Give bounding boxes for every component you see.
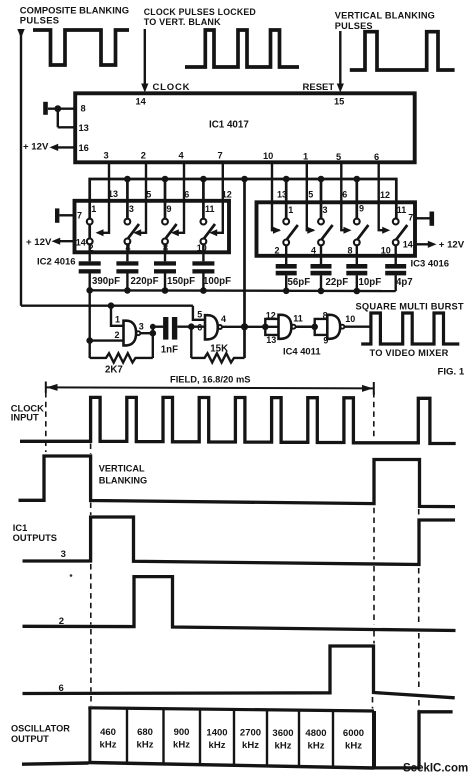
svg-text:7: 7 (77, 211, 82, 221)
svg-text:1: 1 (91, 204, 96, 214)
svg-text:14: 14 (403, 240, 413, 250)
svg-text:PULSES: PULSES (20, 15, 60, 26)
svg-text:13: 13 (266, 335, 276, 345)
svg-text:OUTPUTS: OUTPUTS (13, 533, 57, 543)
svg-text:10: 10 (345, 314, 355, 324)
svg-text:8: 8 (323, 311, 328, 321)
svg-text:+ 12V: + 12V (26, 237, 52, 248)
svg-text:TO VERT. BLANK: TO VERT. BLANK (144, 17, 221, 27)
svg-text:56pF: 56pF (288, 277, 311, 288)
svg-text:150pF: 150pF (167, 276, 195, 287)
svg-text:3: 3 (104, 151, 109, 161)
svg-text:15K: 15K (210, 343, 228, 354)
svg-text:4: 4 (179, 151, 185, 161)
svg-text:IC4 4011: IC4 4011 (283, 346, 321, 357)
svg-text:4p7: 4p7 (396, 277, 413, 288)
svg-text:PULSES: PULSES (335, 21, 373, 31)
svg-text:3: 3 (139, 322, 144, 332)
svg-text:IC1: IC1 (13, 523, 27, 533)
svg-text:FIG. 1: FIG. 1 (438, 366, 465, 377)
svg-text:6000: 6000 (343, 728, 364, 739)
svg-text:3: 3 (129, 204, 134, 214)
svg-text:kHz: kHz (137, 740, 154, 751)
svg-text:IC2 4016: IC2 4016 (37, 257, 76, 268)
svg-text:2K7: 2K7 (105, 365, 123, 376)
svg-text:14: 14 (136, 97, 147, 107)
svg-text:12: 12 (222, 190, 232, 200)
svg-text:10: 10 (263, 151, 273, 161)
svg-text:kHz: kHz (100, 739, 117, 750)
svg-text:220pF: 220pF (131, 276, 159, 287)
svg-text:IC1 4017: IC1 4017 (209, 120, 249, 131)
svg-text:kHz: kHz (209, 740, 226, 751)
svg-text:9: 9 (359, 204, 364, 214)
svg-text:kHz: kHz (173, 740, 190, 751)
svg-text:5: 5 (308, 190, 313, 200)
svg-text:1: 1 (288, 205, 293, 215)
svg-text:12: 12 (380, 190, 390, 200)
svg-text:3600: 3600 (272, 728, 293, 739)
svg-text:22pF: 22pF (326, 277, 349, 288)
svg-text:TO VIDEO MIXER: TO VIDEO MIXER (370, 348, 449, 358)
svg-text:680: 680 (137, 727, 153, 738)
svg-text:5: 5 (146, 189, 151, 199)
svg-text:4800: 4800 (305, 728, 326, 739)
svg-text:6: 6 (374, 152, 379, 162)
svg-text:2: 2 (141, 151, 146, 161)
svg-text:VERTICAL: VERTICAL (99, 463, 145, 473)
svg-text:13: 13 (79, 123, 89, 133)
svg-text:IC3 4016: IC3 4016 (411, 259, 450, 270)
svg-text:1: 1 (115, 315, 120, 325)
svg-text:OUTPUT: OUTPUT (11, 734, 49, 744)
svg-text:FIELD, 16.8/20 mS: FIELD, 16.8/20 mS (170, 375, 251, 385)
svg-text:460: 460 (100, 727, 116, 738)
svg-text:14: 14 (76, 238, 86, 248)
svg-text:9: 9 (323, 336, 328, 346)
svg-text:11: 11 (397, 205, 407, 215)
svg-text:10pF: 10pF (359, 277, 382, 288)
svg-text:390pF: 390pF (92, 276, 120, 287)
svg-text:3: 3 (61, 549, 66, 560)
svg-text:2: 2 (275, 245, 280, 255)
svg-text:+ 12V: + 12V (23, 142, 49, 153)
svg-text:kHz: kHz (308, 741, 325, 752)
svg-text:900: 900 (174, 727, 190, 738)
svg-text:15: 15 (334, 97, 344, 107)
svg-text:6: 6 (342, 190, 347, 200)
svg-text:6: 6 (197, 322, 202, 332)
svg-text:VERTICAL BLANKING: VERTICAL BLANKING (335, 10, 435, 20)
svg-text:4: 4 (311, 245, 316, 255)
svg-text:13: 13 (108, 189, 118, 199)
svg-text:kHz: kHz (275, 740, 292, 751)
svg-text:4: 4 (221, 314, 226, 324)
svg-text:10: 10 (381, 245, 391, 255)
svg-text:CLOCK: CLOCK (153, 82, 191, 93)
svg-text:2: 2 (115, 330, 120, 340)
svg-text:OSCILLATOR: OSCILLATOR (11, 724, 70, 734)
svg-text:1400: 1400 (206, 727, 227, 738)
svg-text:3: 3 (323, 205, 328, 215)
svg-text:16: 16 (79, 143, 89, 153)
svg-text:11: 11 (293, 313, 303, 323)
svg-text:INPUT: INPUT (11, 412, 39, 422)
svg-text:13: 13 (277, 189, 287, 199)
svg-text:CLOCK PULSES LOCKED: CLOCK PULSES LOCKED (144, 7, 256, 17)
svg-text:+ 12V: + 12V (439, 240, 465, 251)
svg-text:12: 12 (266, 311, 276, 321)
svg-text:8: 8 (348, 245, 353, 255)
svg-text:1nF: 1nF (161, 345, 178, 356)
svg-text:100pF: 100pF (203, 276, 231, 287)
svg-text:9: 9 (167, 204, 172, 214)
svg-text:BLANKING: BLANKING (99, 475, 148, 485)
svg-text:8: 8 (81, 104, 86, 114)
svg-text:5: 5 (197, 310, 202, 320)
svg-text:1: 1 (303, 152, 308, 162)
svg-text:kHz: kHz (242, 740, 259, 751)
svg-text:5: 5 (336, 152, 341, 162)
svg-text:7: 7 (408, 213, 413, 223)
svg-text:11: 11 (205, 204, 215, 214)
svg-text:2700: 2700 (240, 728, 261, 739)
svg-text:RESET: RESET (303, 82, 335, 93)
svg-text:SQUARE MULTI BURST: SQUARE MULTI BURST (356, 302, 464, 312)
svg-text:6: 6 (184, 189, 189, 199)
svg-text:7: 7 (218, 151, 223, 161)
svg-text:kHz: kHz (345, 741, 362, 752)
